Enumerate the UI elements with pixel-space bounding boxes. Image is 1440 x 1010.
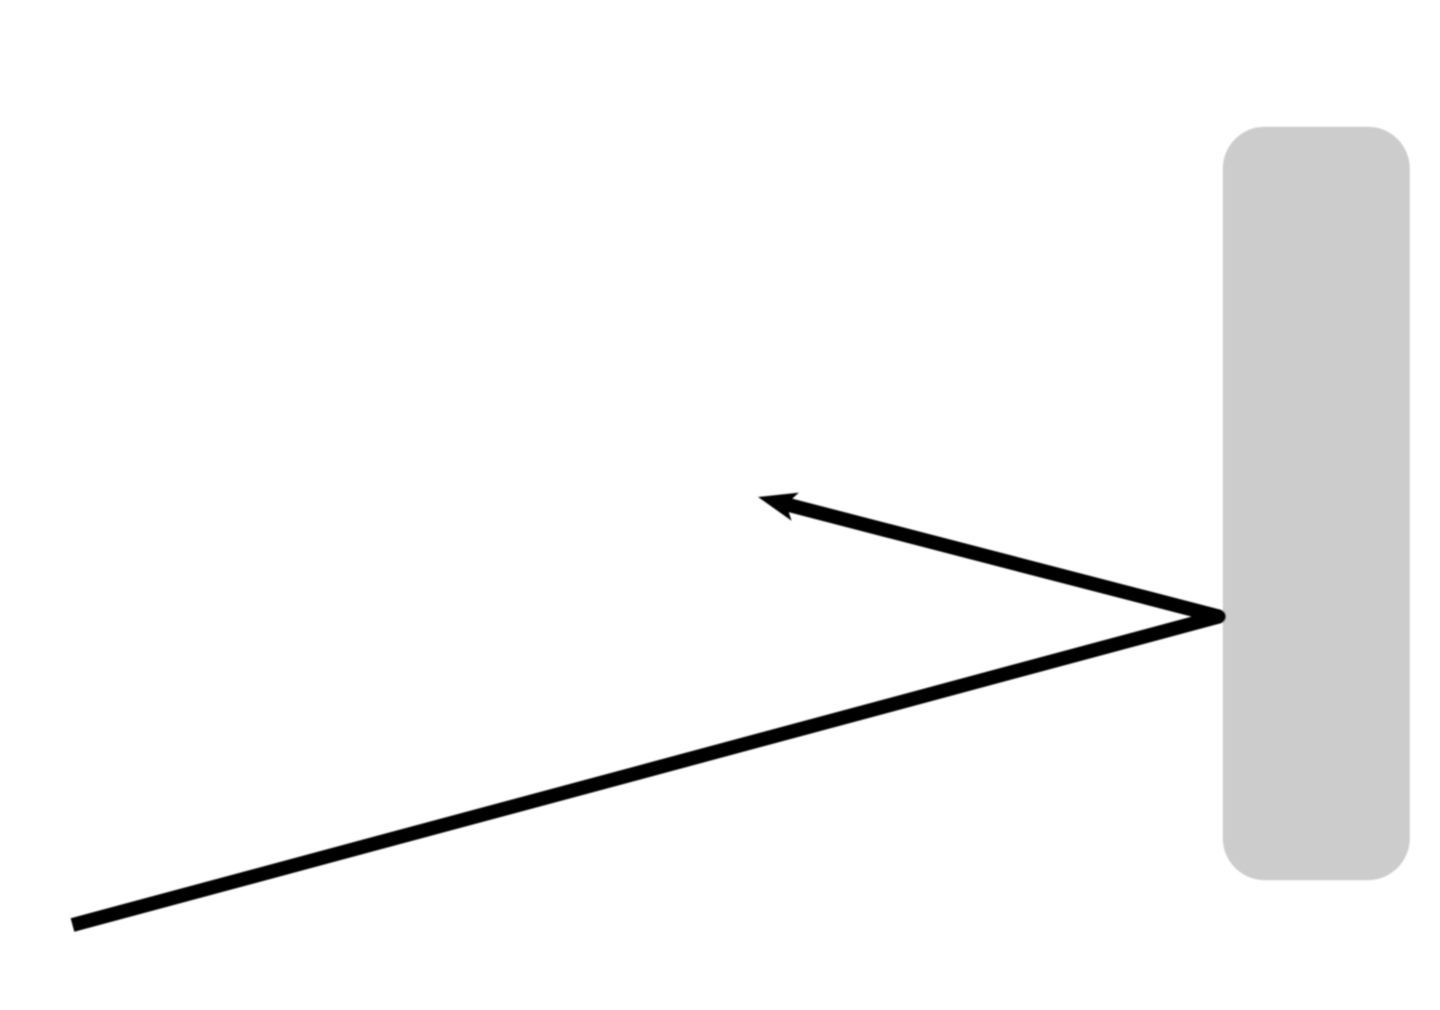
arrow shaft (incident segment from lower-left bouncing off the wall into reflected segment) [73,503,1220,926]
arrowhead [758,493,799,521]
wall (gray rounded rectangle) [1223,127,1410,881]
